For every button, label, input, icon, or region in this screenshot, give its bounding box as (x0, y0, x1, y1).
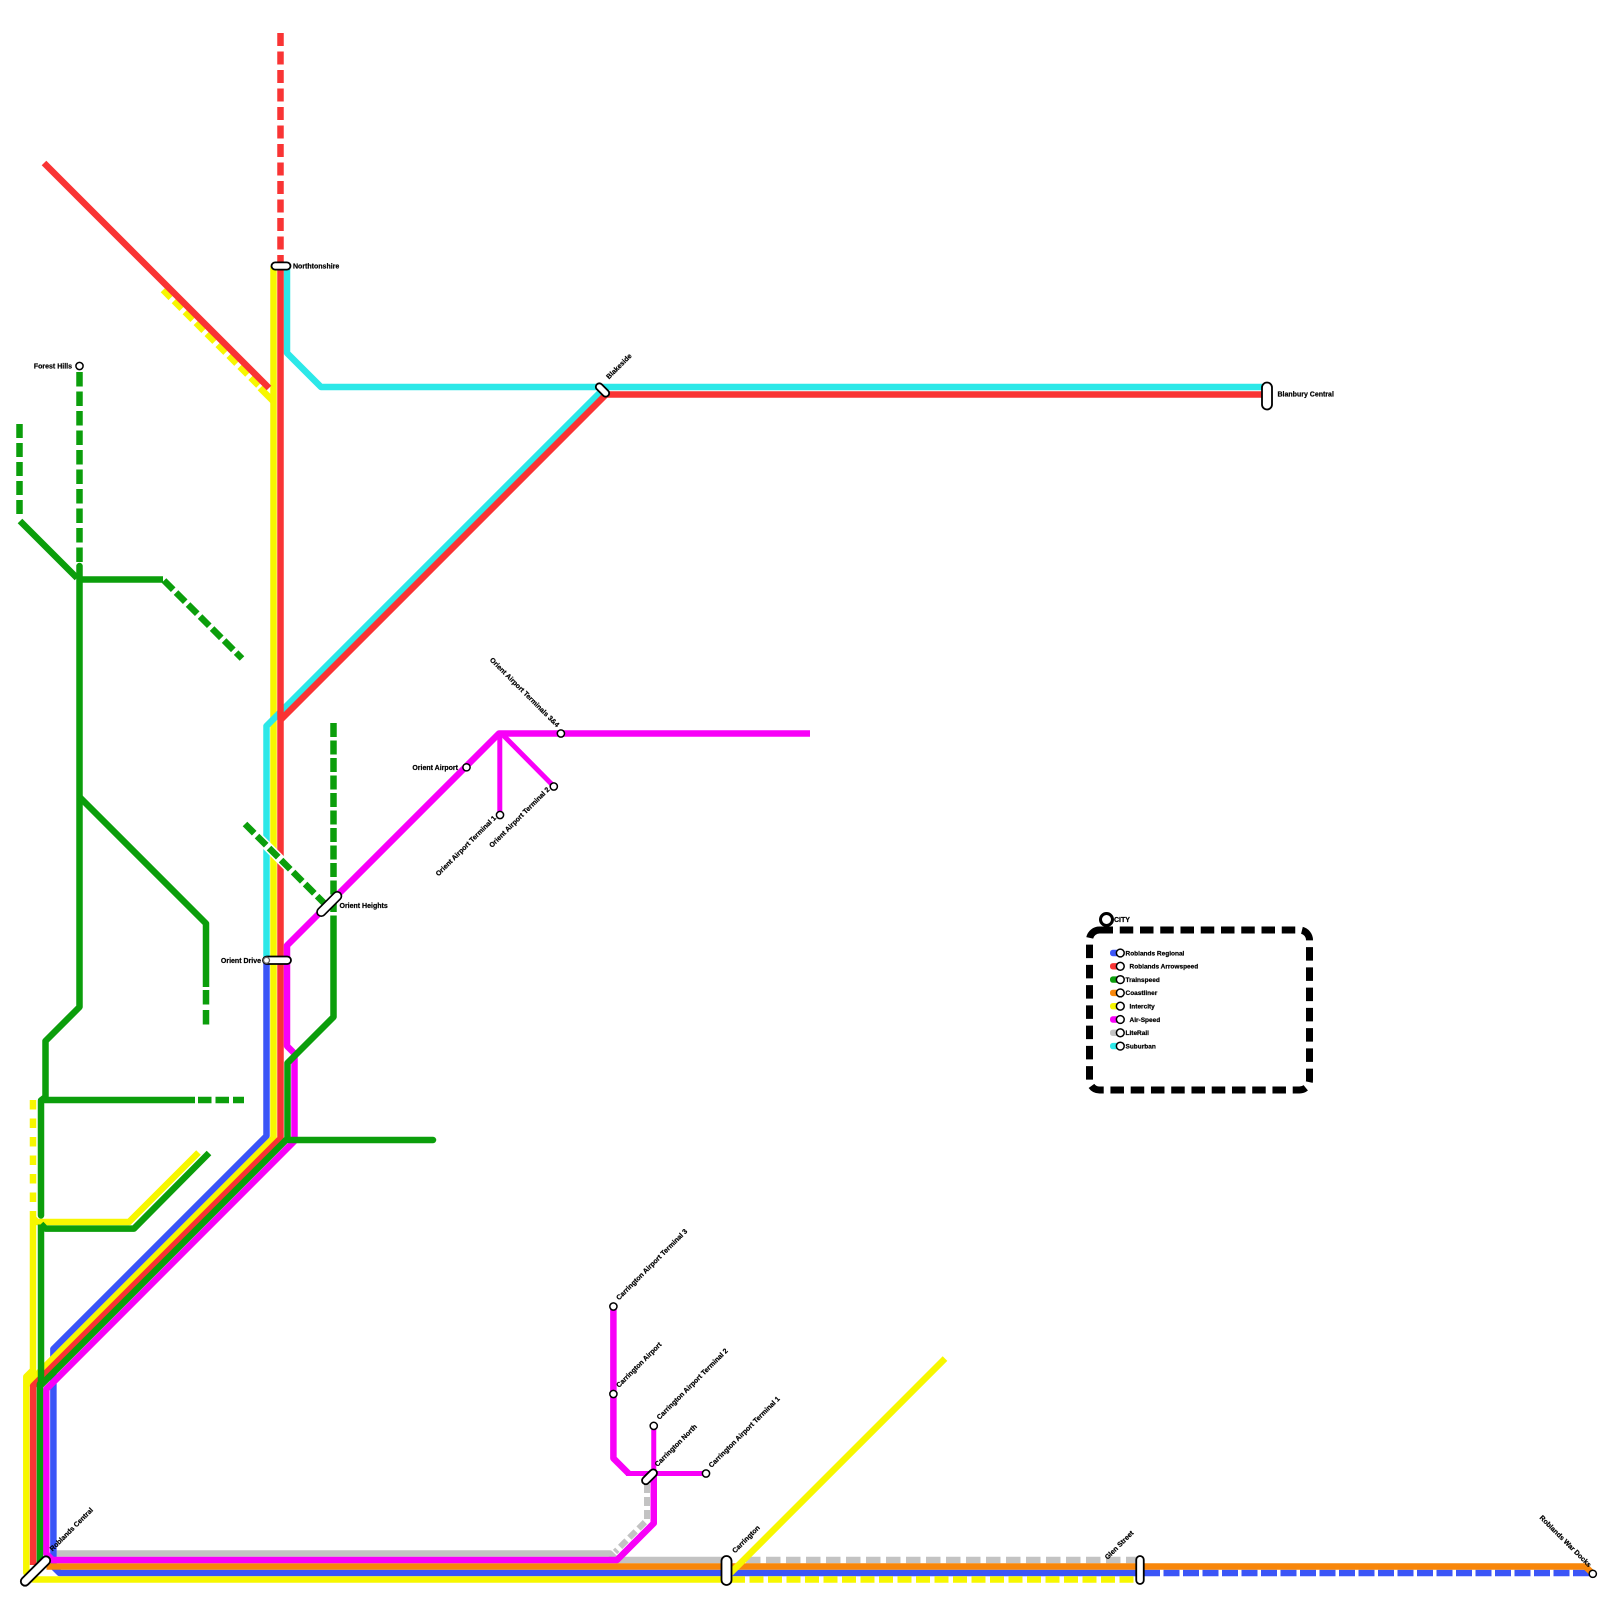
wire: Trainspeed green Orient Heights line solid vertical and diagonal join to bundle (40, 928, 334, 1386)
wire: Roblands Arrowspeed red Blanbury Central branch (281, 395, 1264, 721)
wire: Trainspeed green horizontal y1100 solid (44, 1097, 195, 1104)
legend dashed border box (1090, 930, 1310, 1090)
legend item Air-Speed (1110, 1016, 1160, 1024)
station Orient Heights pill (315, 890, 343, 918)
legend item Roblands Regional (1110, 949, 1185, 957)
station Orient Airport circle (463, 764, 470, 771)
wire: Intercity yellow dashed diagonal upper-left (163, 290, 262, 389)
legend item Roblands Arrowspeed (1110, 962, 1198, 970)
station Orient Drive pill (263, 957, 291, 965)
wire: Trainspeed green Orient Heights line dashed vertical (330, 723, 337, 928)
svg-text:Northtonshire: Northtonshire (293, 264, 339, 271)
wire: white casing under green dashed diagonal (245, 824, 327, 906)
wire: Roblands Regional blue vertical below Orient Drive and diagonal to Roblands Central then east (53, 962, 1136, 1573)
legend CITY marker (1101, 914, 1113, 926)
svg-text:Orient Airport: Orient Airport (412, 765, 458, 772)
wire: Trainspeed green main vertical left (41, 566, 80, 1216)
svg-text:Orient Drive: Orient Drive (221, 958, 261, 965)
station Roblands War Docks circle (1589, 1570, 1596, 1577)
legend item Coastliner (1110, 989, 1158, 997)
wire: Air-Speed magenta Carrington Airport Terminal 1 stub (626, 1471, 706, 1476)
wire: Trainspeed green mid branch dashed tail (203, 990, 210, 1028)
wire: Roblands Arrowspeed red main vertical and diagonal to Roblands Central (33, 266, 280, 1565)
wire: Suburban cyan Northtonshire to Blanbury Central (287, 267, 1263, 387)
wire: Trainspeed green upper dashed vertical x19 (16, 424, 23, 517)
wire: LiteRail gray dashed branch at Carrington North (615, 1484, 647, 1552)
wire: Trainspeed green diagonal into junction (20, 521, 77, 578)
legend item Suburban (1110, 1042, 1156, 1050)
legend item Intercity (1110, 1002, 1155, 1010)
wire: Intercity yellow left vertical to corner and horizontal to Carrington (26, 1211, 723, 1580)
station Carrington Airport Terminal 2 circle (650, 1422, 657, 1429)
wire: Roblands Arrowspeed red dashed vertical top (277, 33, 284, 262)
wire: Air-Speed magenta Carrington Airport Terminal 2 stub (651, 1426, 656, 1474)
wire: Suburban cyan Blakeside diagonal to Orient Drive (267, 386, 607, 958)
svg-text:Roblands Arrowspeed: Roblands Arrowspeed (1130, 964, 1199, 971)
wire: Intercity yellow branch horizontal y1222 with diagonal stub (33, 1153, 199, 1223)
wire: Air-Speed magenta main from Orient terminal horizontal through Orient Heights to Roblands Central and Carrington (46, 734, 810, 1561)
station Carrington Airport Terminal 1 circle (702, 1470, 709, 1477)
svg-text:Intercity: Intercity (1130, 1004, 1156, 1011)
station Orient Airport Terminal 2 circle (550, 783, 557, 790)
wire: Roblands Regional blue dashed Glen Street to Roblands War Docks (1144, 1570, 1589, 1577)
station Northtonshire pill (272, 262, 291, 269)
station Orient Airport Terminals 3and4 circle (557, 730, 564, 737)
wire: Intercity yellow diagonal into Carrington (724, 1359, 945, 1580)
svg-text:Forest Hills: Forest Hills (34, 364, 72, 371)
wire: Trainspeed green main vertical lower part to Roblands Central (40, 1225, 41, 1569)
station Blanbury Central pill (1262, 383, 1272, 410)
wire: Trainspeed green dashed diagonal stub from y579 (164, 581, 242, 659)
station Blakeside pill (594, 382, 610, 398)
svg-text:Roblands Regional: Roblands Regional (1126, 950, 1185, 957)
wire: Air-Speed magenta Orient Airport Terminal 1 stub (497, 735, 502, 815)
wire: Trainspeed green branch y1228 with diagonal stub (41, 1153, 209, 1229)
svg-text:Blanbury Central: Blanbury Central (1278, 392, 1334, 399)
svg-text:Air-Speed: Air-Speed (1130, 1017, 1161, 1024)
wire: Air-Speed magenta Orient Airport Terminal 2 stub (504, 736, 554, 787)
legend item LiteRail (1110, 1029, 1149, 1037)
station Carrington pill (722, 1556, 732, 1585)
station Orient Airport Terminal 1 circle (496, 811, 503, 818)
svg-text:Coastliner: Coastliner (1126, 990, 1158, 997)
svg-text:CITY: CITY (1114, 917, 1130, 924)
station Glen Street pill (1136, 1556, 1144, 1584)
LEGEND (1090, 914, 1310, 1091)
svg-text:LiteRail: LiteRail (1126, 1030, 1150, 1037)
wire: Intercity yellow left dashed vertical (30, 1100, 37, 1211)
wire: Air-Speed magenta Carrington Airport branch (613, 1307, 628, 1474)
station Roblands Central pill (19, 1555, 52, 1588)
station Carrington Airport Terminal 3 circle (610, 1303, 617, 1310)
wire: Coastliner orange horizontal Roblands Central to Roblands War Docks (47, 1567, 1593, 1574)
station Carrington North pill (640, 1468, 658, 1486)
station marker circle inside Orient Drive pill (264, 957, 270, 963)
wire: Trainspeed green horizontal stub y1140 (289, 1137, 433, 1144)
wire: Intercity yellow dashed Carrington to Glen Street (731, 1576, 1136, 1583)
wire: Trainspeed green mid branch diagonal to x206 (80, 797, 207, 987)
svg-text:Suburban: Suburban (1126, 1043, 1156, 1050)
station Carrington Airport circle (610, 1390, 617, 1397)
wire: LiteRail gray horizontal Roblands Central to Carrington with jog (56, 1554, 723, 1561)
svg-text:Trainspeed: Trainspeed (1126, 977, 1160, 984)
wire: Intercity yellow main vertical and diagonal to Roblands Central (26, 266, 273, 1385)
wire: Roblands Arrowspeed red top-left diagonal (44, 163, 269, 388)
wire: Trainspeed green horizontal y1100 dashed (198, 1097, 244, 1104)
wire: Intercity yellow elbow joining vertical (260, 388, 274, 402)
wire: Trainspeed green Forest Hills dashed vertical (76, 372, 83, 566)
wire: Trainspeed green dashed diagonal crossing into Orient Heights (245, 824, 327, 906)
wire: Trainspeed green horizontal y579 (77, 576, 163, 583)
legend item Trainspeed (1110, 976, 1160, 984)
station Forest Hills circle (76, 362, 83, 369)
svg-text:Orient Heights: Orient Heights (340, 903, 388, 910)
wire: LiteRail gray dashed Carrington to Glen Street (746, 1557, 1136, 1564)
